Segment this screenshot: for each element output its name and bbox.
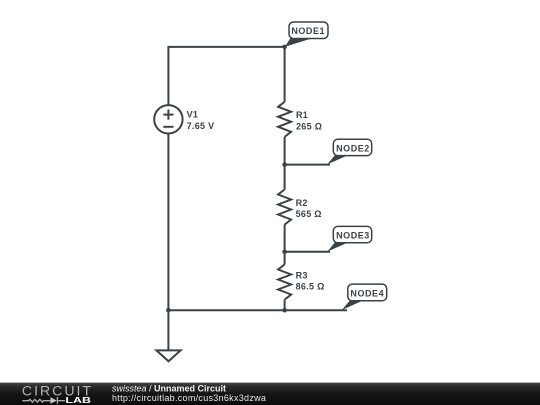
svg-text:V1: V1: [187, 110, 199, 120]
svg-text:http://circuitlab.com/cus3n6kx: http://circuitlab.com/cus3n6kx3dzwa: [112, 393, 266, 403]
svg-text:R3: R3: [296, 270, 308, 280]
svg-text:NODE3: NODE3: [336, 231, 370, 241]
svg-text:565 Ω: 565 Ω: [296, 209, 322, 219]
svg-text:7.65 V: 7.65 V: [187, 121, 215, 131]
svg-text:NODE4: NODE4: [350, 288, 384, 298]
svg-text:R2: R2: [296, 198, 308, 208]
svg-text:LAB: LAB: [65, 396, 91, 405]
svg-text:86.5 Ω: 86.5 Ω: [296, 282, 325, 292]
svg-text:NODE2: NODE2: [336, 143, 370, 153]
svg-text:swisstea / Unnamed Circuit: swisstea / Unnamed Circuit: [112, 383, 226, 393]
svg-text:265 Ω: 265 Ω: [296, 121, 322, 131]
svg-text:R1: R1: [296, 110, 308, 120]
svg-text:NODE1: NODE1: [291, 26, 325, 36]
